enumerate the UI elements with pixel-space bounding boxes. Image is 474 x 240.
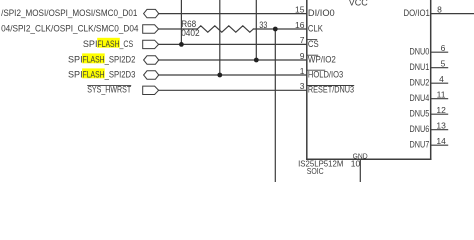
svg-text:DO/IO1: DO/IO1 — [404, 8, 430, 18]
svg-text:VCC: VCC — [349, 0, 369, 8]
off-page connector row6 pentagon — [143, 86, 159, 94]
svg-text:8: 8 — [437, 5, 442, 15]
wire net SPI2D3 row5 — [159, 74, 307, 76]
svg-text:/SPI2_MOSI/OSPI_MOSI/SMC0_D01: /SPI2_MOSI/OSPI_MOSI/SMC0_D01 — [1, 8, 137, 18]
svg-text:_CS: _CS — [119, 39, 133, 49]
svg-text:SPI: SPI — [68, 69, 83, 79]
wire net CS row3 — [159, 43, 307, 45]
vertical wire v3 to WP row4 — [255, 0, 257, 60]
svg-text:DNU4: DNU4 — [410, 93, 430, 103]
vertical wire v2 to HOLD row5 — [219, 0, 221, 75]
wire net CLK row2 right segment — [253, 28, 306, 30]
svg-text:9: 9 — [300, 51, 305, 61]
svg-text:4: 4 — [439, 74, 444, 84]
svg-text:DNU0: DNU0 — [410, 47, 430, 57]
resistor R68 zigzag — [197, 26, 253, 32]
svg-text:13: 13 — [436, 121, 446, 131]
svg-text:DNU6: DNU6 — [410, 124, 430, 134]
svg-text:16: 16 — [295, 20, 305, 30]
pin 12 DNU5 stub — [431, 113, 448, 115]
wire net SYS_HWRST row6 — [159, 89, 307, 91]
svg-text:10: 10 — [351, 159, 361, 169]
yellow highlight FLASH row5 — [82, 68, 105, 78]
svg-text:CLK: CLK — [308, 23, 323, 33]
svg-text:HOLD/IO3: HOLD/IO3 — [308, 69, 343, 79]
svg-text:15: 15 — [295, 4, 305, 14]
svg-text:CS: CS — [308, 39, 319, 49]
svg-text:33: 33 — [259, 20, 267, 30]
svg-text:WP/IO2: WP/IO2 — [308, 54, 336, 64]
svg-text:FLASH: FLASH — [83, 54, 105, 64]
off-page connector row5 hexagon — [144, 71, 159, 79]
vertical wire v1 to CS — [180, 0, 182, 44]
svg-text:DNU1: DNU1 — [410, 62, 430, 72]
junction dot on row4 — [254, 58, 259, 63]
pin 11 DNU4 stub — [431, 98, 448, 100]
svg-text:7: 7 — [300, 35, 305, 45]
svg-text:12: 12 — [436, 105, 446, 115]
svg-text:5: 5 — [441, 59, 446, 69]
pin 13 DNU6 stub — [431, 129, 448, 131]
yellow highlight FLASH row3 — [97, 38, 120, 48]
svg-text:_SPI2D3: _SPI2D3 — [104, 69, 136, 79]
vertical wire v4 CLK down — [274, 29, 276, 182]
off-page connector row4 hexagon — [144, 56, 159, 64]
pin 6 DNU0 stub — [431, 51, 448, 53]
junction dot on row5 — [217, 73, 222, 78]
wire net /SPI2_MOSI row1 — [159, 13, 307, 15]
wire net SPI2D2 row4 — [159, 59, 307, 61]
svg-text:SPI: SPI — [83, 39, 98, 49]
pin 5 DNU1 stub — [431, 67, 448, 69]
svg-text:0402: 0402 — [181, 28, 200, 38]
yellow highlight FLASH row4 — [82, 53, 105, 63]
svg-text:DNU7: DNU7 — [410, 140, 430, 150]
svg-text:DI/IO0: DI/IO0 — [308, 8, 335, 18]
off-page connector row1 hexagon — [144, 9, 159, 17]
svg-text:DNU5: DNU5 — [410, 109, 430, 119]
svg-text:DNU2: DNU2 — [410, 78, 430, 88]
wire net CLK row2 left segment — [159, 28, 198, 30]
svg-text:FLASH: FLASH — [83, 69, 105, 79]
svg-text:6: 6 — [441, 43, 446, 53]
pin 10 GND wire — [359, 159, 361, 182]
svg-text:04/SPI2_CLK/OSPI_CLK/SMC0_D04: 04/SPI2_CLK/OSPI_CLK/SMC0_D04 — [1, 23, 138, 33]
junction dot on CLK — [273, 27, 278, 32]
pin 4 DNU2 stub — [431, 82, 448, 84]
pin 8 DO/IO1 wire — [431, 13, 474, 15]
svg-text:3: 3 — [300, 81, 305, 91]
off-page connector row3 pentagon — [143, 40, 159, 48]
svg-text:FLASH: FLASH — [98, 39, 120, 49]
svg-text:SOIC: SOIC — [307, 166, 324, 176]
svg-text:SPI: SPI — [68, 54, 83, 64]
svg-text:14: 14 — [436, 136, 446, 146]
IC U1 body (IS25LP512M flash) — [307, 0, 431, 159]
svg-text:_SPI2D2: _SPI2D2 — [104, 54, 136, 64]
svg-text:11: 11 — [437, 90, 446, 100]
svg-text:1: 1 — [300, 66, 305, 76]
svg-text:SYS_HWRST: SYS_HWRST — [87, 85, 131, 95]
pin 14 DNU7 stub — [431, 144, 448, 146]
junction dot on CS — [179, 42, 184, 47]
svg-text:RESET/DNU3: RESET/DNU3 — [308, 85, 354, 95]
off-page connector row2 pentagon — [143, 25, 159, 33]
